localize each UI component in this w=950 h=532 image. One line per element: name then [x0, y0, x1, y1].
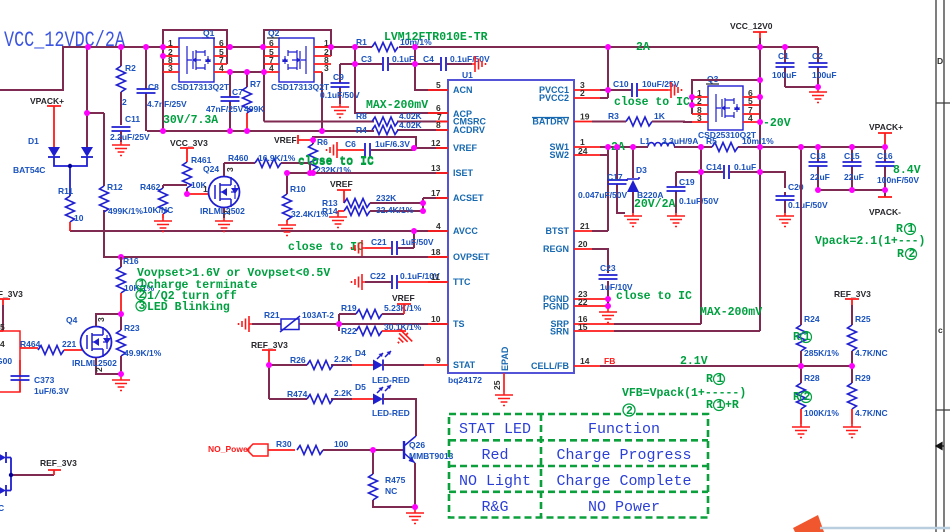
svg-text:4.7K/NC: 4.7K/NC: [855, 408, 888, 418]
svg-text:REF_3V3: REF_3V3: [0, 289, 23, 299]
svg-text:CSD17313Q2T: CSD17313Q2T: [171, 82, 230, 92]
svg-text:TS: TS: [453, 319, 465, 329]
capacitor C20: [776, 182, 829, 213]
node REF_3V3 right: [834, 289, 871, 325]
resistor R2: [117, 47, 137, 125]
svg-text:R475: R475: [385, 475, 406, 485]
junction dots q26: [266, 362, 418, 510]
svg-text:22uF: 22uF: [844, 172, 864, 182]
svg-text:Vpack=2.1(1+---): Vpack=2.1(1+---): [815, 235, 925, 248]
capacitor C7: [206, 72, 244, 131]
svg-text:0.047uF/50V: 0.047uF/50V: [578, 190, 627, 200]
ground under Q24: [215, 218, 233, 232]
wire VPACK+ to D1: [53, 112, 55, 147]
svg-text:R23: R23: [124, 323, 140, 333]
svg-text:1: 1: [717, 373, 724, 386]
svg-text:C: C: [0, 503, 4, 513]
svg-text:SRN: SRN: [550, 327, 569, 337]
wire SW rail: [600, 147, 885, 155]
svg-text:C22: C22: [370, 271, 386, 281]
svg-text:2A: 2A: [636, 41, 650, 54]
capacitor C6: [340, 139, 410, 157]
svg-text:Q4: Q4: [66, 315, 78, 325]
svg-text:Q24: Q24: [203, 164, 219, 174]
svg-text:R26: R26: [290, 355, 306, 365]
svg-text:10m/1%: 10m/1%: [742, 136, 774, 146]
svg-text:REF_3V3: REF_3V3: [251, 340, 288, 350]
U1 left pin names: [453, 85, 490, 370]
svg-text:R: R: [897, 248, 904, 261]
capacitor C9: [320, 64, 360, 104]
capacitor C22 TTC: [352, 271, 449, 290]
svg-text:NO_Power: NO_Power: [208, 444, 252, 454]
svg-text:1: 1: [717, 399, 724, 412]
diode D1 BAT54C dual: [13, 136, 93, 196]
capacitor C10: [608, 79, 680, 97]
svg-text:3: 3: [168, 63, 173, 73]
svg-text:3: 3: [697, 113, 702, 123]
wire C3 row: [355, 47, 472, 90]
svg-text:c: c: [938, 325, 943, 335]
svg-text:close to IC: close to IC: [288, 241, 364, 254]
svg-text:2: 2: [580, 88, 585, 98]
svg-text:R: R: [793, 391, 800, 404]
svg-text:100K/1%: 100K/1%: [804, 408, 839, 418]
svg-text:+R: +R: [725, 399, 739, 412]
ground under Q4 R23: [112, 374, 130, 391]
svg-text:100uF: 100uF: [772, 70, 797, 80]
svg-text:ACN: ACN: [453, 85, 473, 95]
svg-text:VCC_12V0: VCC_12V0: [730, 21, 773, 31]
inductor L1: [648, 143, 674, 147]
ground right of C10: [668, 82, 682, 98]
transistor Q3 CSD25310Q2T: [692, 74, 760, 140]
svg-text:49.9K/1%: 49.9K/1%: [124, 348, 162, 358]
decoration orange corner: [793, 515, 824, 532]
svg-text:100uF: 100uF: [812, 70, 837, 80]
capacitor C8: [137, 47, 188, 131]
junction dots fb: [798, 363, 855, 369]
note circled 2 above table: [623, 404, 635, 418]
svg-text:22: 22: [578, 297, 588, 307]
svg-text:1: 1: [804, 331, 811, 344]
svg-text:221: 221: [62, 339, 76, 349]
wire R24 riser x801: [800, 147, 802, 325]
resistor R22: [341, 322, 422, 336]
svg-text:R8: R8: [356, 111, 367, 121]
svg-text:16.9K/1%: 16.9K/1%: [258, 153, 296, 163]
resistor R13: [322, 193, 423, 208]
svg-text:D1: D1: [28, 136, 39, 146]
resistor R30: [268, 439, 404, 455]
capacitor C1: [772, 47, 797, 87]
svg-text:STAT: STAT: [453, 360, 476, 370]
svg-text:19: 19: [580, 112, 590, 122]
svg-text:R1: R1: [356, 37, 367, 47]
svg-text:R25: R25: [855, 314, 871, 324]
svg-text:C9: C9: [333, 72, 344, 82]
wire FB 2.1V: [600, 355, 852, 368]
capacitor C17: [578, 147, 627, 213]
svg-text:NO Light: NO Light: [459, 473, 531, 490]
svg-text:R24: R24: [804, 314, 820, 324]
note Vovpset block: [137, 267, 330, 314]
svg-text:3: 3: [324, 63, 329, 73]
svg-text:Red: Red: [481, 447, 508, 464]
svg-text:17: 17: [431, 188, 441, 198]
svg-text:C2: C2: [812, 51, 823, 61]
capacitor C373: [11, 360, 70, 396]
wire TS rail: [299, 314, 448, 331]
svg-text:Charge Complete: Charge Complete: [556, 473, 691, 490]
svg-text:5: 5: [436, 80, 441, 90]
ground under R29: [843, 424, 861, 438]
svg-text:C16: C16: [877, 151, 893, 161]
svg-text:R474: R474: [287, 389, 308, 399]
capacitor C18: [809, 147, 830, 190]
svg-text:1uF/6.3V: 1uF/6.3V: [34, 386, 69, 396]
capacitor C14: [676, 162, 785, 188]
LED D4: [352, 348, 424, 385]
U1 pin numbers right: [578, 80, 590, 366]
svg-text:R29: R29: [855, 373, 871, 383]
svg-text:R2: R2: [125, 63, 136, 73]
resistor R464: [20, 339, 82, 355]
svg-text:OVPSET: OVPSET: [453, 252, 490, 262]
U1 EPAD pin: [492, 346, 510, 392]
junction dots acset: [420, 200, 426, 214]
svg-text:C3: C3: [361, 54, 372, 64]
ground right of C4: [472, 56, 486, 72]
svg-text:2.2K: 2.2K: [334, 354, 353, 364]
svg-text:4.7nF/25V: 4.7nF/25V: [147, 99, 187, 109]
node REF_3V3 (led): [251, 340, 288, 365]
svg-text:R22: R22: [341, 326, 357, 336]
svg-text:R4: R4: [356, 125, 367, 135]
svg-text:-20V: -20V: [763, 117, 791, 130]
junction dot TS: [336, 321, 342, 327]
svg-text:C14: C14: [706, 162, 722, 172]
ground under C20: [776, 213, 794, 227]
capacitor C16: [876, 147, 920, 190]
svg-text:U1: U1: [462, 70, 473, 80]
wire VPACK bottom rail: [818, 190, 885, 197]
svg-text:CELL/FB: CELL/FB: [531, 361, 569, 371]
svg-text:4: 4: [436, 221, 441, 231]
svg-text:20: 20: [578, 239, 588, 249]
svg-text:21: 21: [580, 221, 590, 231]
svg-text:1: 1: [908, 223, 915, 236]
wire Q2 gate vertical: [321, 72, 323, 131]
node VCC_3V3: [170, 138, 208, 154]
svg-text:close to IC: close to IC: [614, 96, 690, 109]
svg-text:4: 4: [269, 63, 274, 73]
resistor R3: [592, 111, 692, 126]
resistor R461: [183, 154, 212, 194]
svg-text:Charge Progress: Charge Progress: [556, 447, 691, 464]
svg-text:2: 2: [804, 391, 811, 404]
resistor R14: [322, 198, 448, 216]
svg-text:VREF: VREF: [392, 293, 415, 303]
table STAT LED dashed: [449, 414, 708, 518]
svg-text:25: 25: [492, 380, 502, 390]
resistor R29: [848, 366, 888, 424]
svg-text:18: 18: [431, 247, 441, 257]
svg-text:VPACK+: VPACK+: [869, 122, 903, 132]
connector left edge box: [0, 322, 38, 392]
node VREF power: [274, 135, 313, 145]
node VPACK- right: [869, 197, 901, 217]
svg-text:0.1uF: 0.1uF: [734, 162, 756, 172]
svg-text:C7: C7: [232, 87, 243, 97]
svg-text:R11: R11: [58, 186, 73, 196]
svg-text:R16: R16: [123, 256, 139, 266]
wire VREF routing: [313, 137, 448, 150]
svg-text:R10: R10: [290, 184, 306, 194]
svg-text:LED-RED: LED-RED: [372, 408, 410, 418]
svg-text:4.7K/NC: 4.7K/NC: [855, 348, 888, 358]
resistor R474: [287, 388, 353, 404]
svg-text:D3: D3: [636, 165, 647, 175]
ground under C11: [112, 142, 130, 156]
svg-text:232K: 232K: [376, 193, 397, 203]
svg-text:D4: D4: [355, 348, 366, 358]
svg-text:R21: R21: [264, 310, 280, 320]
capacitor C23 REGN: [592, 249, 633, 309]
svg-text:IRLML2502: IRLML2502: [200, 206, 245, 216]
junction dots pgnd: [605, 296, 611, 309]
svg-text:4: 4: [748, 113, 753, 123]
resistor R6: [309, 137, 352, 175]
svg-text:L1: L1: [640, 136, 650, 146]
svg-text:AVCC: AVCC: [453, 226, 478, 236]
wire SRP SRN routing: [614, 324, 760, 331]
svg-text:PGND: PGND: [543, 302, 570, 312]
svg-text:MMBT9013: MMBT9013: [409, 451, 454, 461]
svg-text:32.4K/1%: 32.4K/1%: [376, 205, 414, 215]
svg-text:C23: C23: [600, 263, 616, 273]
resistor R10: [283, 173, 329, 222]
note VFB formula: [622, 373, 746, 412]
resistor R462: [140, 182, 187, 218]
junction dots SW rail: [605, 144, 888, 193]
svg-text:C18: C18: [810, 151, 826, 161]
svg-text:3.3uH/9A: 3.3uH/9A: [662, 136, 698, 146]
svg-text:3: 3: [139, 300, 146, 313]
svg-text:R464: R464: [20, 339, 41, 349]
svg-text:C1: C1: [778, 51, 789, 61]
svg-text:R462: R462: [140, 182, 161, 192]
svg-text:NO Power: NO Power: [588, 499, 660, 516]
ground under EPAD: [495, 392, 513, 406]
svg-text:C373: C373: [34, 375, 55, 385]
ground right of R22: [392, 327, 414, 349]
capacitor C3: [361, 54, 414, 71]
svg-text:C19: C19: [679, 177, 695, 187]
svg-text:LED Blinking: LED Blinking: [147, 301, 230, 314]
svg-text:2: 2: [626, 405, 633, 418]
note circled R1 R2 on dividers: [793, 331, 800, 404]
svg-text:IRLML2502: IRLML2502: [72, 358, 117, 368]
ground under R462: [154, 218, 172, 232]
resistor R5: [706, 136, 774, 152]
svg-text:C6: C6: [345, 139, 356, 149]
svg-text:R&G: R&G: [481, 499, 508, 516]
junction dots right top: [605, 44, 821, 125]
svg-text:1uF/50V: 1uF/50V: [401, 237, 434, 247]
svg-text:VREF: VREF: [330, 179, 353, 189]
capacitor C2: [785, 47, 837, 89]
svg-text:0.1uF: 0.1uF: [392, 54, 414, 64]
wire SRP riser x701: [700, 147, 702, 324]
svg-text:C15: C15: [844, 151, 860, 161]
wire AVCC rail: [70, 230, 448, 232]
svg-text:C4: C4: [423, 54, 434, 64]
svg-text:R7: R7: [250, 79, 261, 89]
svg-text:close to IC: close to IC: [298, 155, 374, 168]
svg-text:NC: NC: [385, 486, 397, 496]
svg-text:2.2uF/25V: 2.2uF/25V: [110, 132, 150, 142]
svg-text:R30: R30: [276, 439, 292, 449]
svg-text:close to IC: close to IC: [616, 290, 692, 303]
table text column 1: [459, 421, 531, 516]
node VPACK+ right: [869, 122, 903, 147]
svg-text:REGN: REGN: [543, 244, 569, 254]
svg-text:C8: C8: [148, 82, 159, 92]
transistor Q4 IRLML2502: [66, 314, 121, 374]
svg-text:LED-RED: LED-RED: [372, 375, 410, 385]
node VCC_12VDC/2A title: [4, 28, 126, 53]
svg-text:R: R: [793, 331, 800, 344]
svg-text:G00: G00: [0, 356, 12, 366]
svg-text:20V/2A: 20V/2A: [634, 198, 676, 211]
svg-text:0.1uF/50V: 0.1uF/50V: [788, 200, 828, 210]
svg-text:VCC_3V3: VCC_3V3: [170, 138, 208, 148]
ground under C1 C2: [809, 89, 827, 103]
svg-text:D: D: [937, 56, 943, 66]
resistor R28: [797, 366, 840, 424]
svg-text:4.02K: 4.02K: [399, 120, 423, 130]
svg-text:ISET: ISET: [453, 168, 474, 178]
node NO_Power port: [208, 444, 268, 456]
svg-text:BAT54C: BAT54C: [13, 165, 45, 175]
svg-text:13: 13: [431, 163, 441, 173]
svg-text:R28: R28: [804, 373, 820, 383]
svg-text:EPAD: EPAD: [500, 346, 510, 371]
wire rail between Q1 Q2 pin4: [227, 71, 264, 73]
junction dots vref iset: [184, 44, 418, 197]
resistor R23: [117, 314, 162, 374]
ground under C19: [667, 213, 685, 227]
svg-text:VPACK-: VPACK-: [869, 207, 901, 217]
svg-text:R12: R12: [107, 182, 123, 192]
ground under R10: [278, 222, 296, 236]
ground under Q26: [406, 507, 424, 524]
wire led rows: [269, 365, 352, 399]
svg-text:C11: C11: [125, 114, 140, 124]
junction dots q4: [118, 311, 124, 377]
svg-text:R6: R6: [317, 137, 328, 147]
svg-text:11: 11: [431, 272, 440, 282]
table text column 2: [556, 421, 691, 516]
capacitor C15: [843, 147, 864, 190]
svg-text:REF_3V3: REF_3V3: [40, 458, 77, 468]
svg-text:47nF/25V: 47nF/25V: [206, 104, 244, 114]
svg-text:2: 2: [909, 248, 916, 261]
svg-text:R3: R3: [608, 111, 619, 121]
svg-text:100: 100: [334, 439, 348, 449]
svg-text:D5: D5: [355, 382, 366, 392]
svg-text:C21: C21: [371, 237, 387, 247]
wire ACP row: [355, 64, 448, 113]
transistor Q1 CSD17313Q2T: [163, 28, 230, 92]
svg-text:2.1V: 2.1V: [680, 355, 708, 368]
svg-text:FB: FB: [604, 356, 615, 366]
svg-text:VREF: VREF: [453, 143, 478, 153]
svg-text:103AT-2: 103AT-2: [302, 310, 334, 320]
resistor R460: [224, 153, 310, 173]
wire PVCC net: [600, 47, 608, 98]
svg-text:MAX-200mV: MAX-200mV: [700, 306, 762, 319]
svg-text:bq24172: bq24172: [448, 375, 482, 385]
node VREF above R13: [330, 179, 353, 203]
svg-text:R14: R14: [322, 206, 338, 216]
U1 BATDRV overbar: [532, 117, 569, 119]
svg-text:Q2: Q2: [268, 28, 280, 38]
resistor R25: [848, 314, 888, 366]
junction dots avcc: [118, 228, 417, 260]
svg-text:STAT LED: STAT LED: [459, 421, 531, 438]
resistor R16: [117, 256, 155, 314]
U1 right pin names: [531, 85, 570, 371]
svg-text:2.2K: 2.2K: [334, 388, 353, 398]
svg-text:14: 14: [580, 356, 590, 366]
diode D3 B220A: [627, 147, 663, 213]
svg-text:R460: R460: [228, 153, 249, 163]
svg-text:3: 3: [225, 167, 235, 172]
svg-text:BTST: BTST: [546, 226, 570, 236]
svg-text:285K/1%: 285K/1%: [804, 348, 839, 358]
svg-text:VPACK+: VPACK+: [30, 96, 64, 106]
svg-text:15: 15: [578, 322, 588, 332]
svg-text:10: 10: [74, 213, 84, 223]
resistor R24: [797, 314, 840, 366]
U1 pin numbers left: [431, 80, 442, 365]
node VCC_12V0: [730, 21, 773, 38]
svg-text:12: 12: [431, 138, 441, 148]
svg-text:R19: R19: [341, 303, 357, 313]
resistor R475: [369, 474, 406, 500]
node VREF above R19: [392, 293, 415, 314]
svg-text:R: R: [706, 399, 713, 412]
ground under C9: [331, 104, 349, 118]
U1 right pin stubs: [574, 90, 614, 366]
svg-text:9: 9: [436, 355, 441, 365]
wire Q2 outer routing: [264, 30, 331, 122]
LED D5: [352, 382, 416, 432]
resistor R11: [58, 186, 84, 231]
wire ACP vertical x87: [87, 47, 104, 148]
svg-text:30.1K/1%: 30.1K/1%: [384, 322, 422, 332]
svg-text:1K: 1K: [654, 111, 666, 121]
resistor R19: [339, 303, 422, 319]
svg-text:2: 2: [122, 97, 127, 107]
ground under R14: [329, 214, 347, 228]
svg-text:C10: C10: [613, 79, 629, 89]
svg-text:8: 8: [436, 120, 441, 130]
svg-text:4: 4: [219, 63, 224, 73]
svg-text:Function: Function: [588, 421, 660, 438]
